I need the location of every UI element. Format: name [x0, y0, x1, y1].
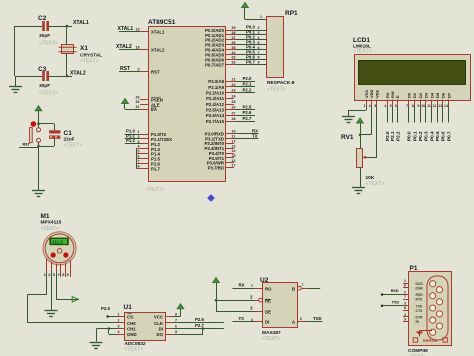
svg-text:P2.4/A12: P2.4/A12 [206, 102, 225, 107]
wire RV1 bottom to ground [360, 168, 362, 188]
svg-text:B: B [292, 286, 295, 291]
svg-text:D0: D0 [407, 92, 412, 98]
svg-text:P0.7: P0.7 [446, 131, 451, 141]
svg-text:37: 37 [232, 36, 236, 40]
svg-text:7: 7 [302, 283, 304, 287]
svg-text:P2.5: P2.5 [101, 306, 110, 311]
pin XTAL1 (19) with wire and label [118, 26, 166, 35]
svg-text:TXD: TXD [392, 301, 400, 305]
pin PSEN (29) [136, 95, 163, 102]
pin P0.6 (33) wire to RP1 pin 8 [205, 54, 266, 62]
svg-text:5: 5 [62, 273, 64, 277]
svg-text:1: 1 [138, 130, 140, 134]
svg-text:P2.7: P2.7 [243, 116, 252, 121]
pin P1.5 (6) [136, 155, 160, 162]
svg-text:XTAL2: XTAL2 [116, 44, 132, 50]
svg-text:COMPIM: COMPIM [408, 348, 428, 354]
pin P1.7 (8) [136, 164, 160, 171]
pin XTAL2 (18) with wire and label [116, 44, 165, 53]
svg-text:XTAL2: XTAL2 [151, 48, 165, 53]
pin P2.2 (23) with wire and net label [206, 87, 255, 95]
svg-text:33: 33 [232, 56, 236, 60]
svg-text:1: 1 [118, 312, 120, 316]
svg-text:XTAL1: XTAL1 [118, 26, 134, 32]
svg-text:31: 31 [136, 105, 140, 109]
svg-text:DI: DI [265, 320, 269, 325]
ground (M1 pin2) [45, 311, 58, 317]
svg-text:RV1: RV1 [341, 134, 354, 141]
svg-text:LCD1: LCD1 [353, 37, 370, 44]
svg-text:D6: D6 [441, 92, 446, 98]
svg-text:P2.0/A8: P2.0/A8 [208, 79, 224, 84]
svg-text:24: 24 [232, 94, 236, 98]
svg-text:VDD: VDD [369, 89, 374, 98]
pin P0.3 (36) wire to RP1 pin 5 [205, 40, 266, 48]
svg-text:<TEXT>: <TEXT> [39, 41, 58, 47]
wire U1 CLK net label P2.6 [174, 317, 224, 322]
wire U1 DI net label P2.7 [174, 323, 224, 329]
svg-text:P2.6: P2.6 [195, 317, 204, 322]
P1 DB9 holes [430, 281, 443, 336]
svg-text:P1.2: P1.2 [126, 138, 135, 143]
svg-text:5: 5 [138, 150, 140, 154]
svg-text:P0.6: P0.6 [441, 131, 446, 141]
pin P0.7 (32) wire to RP1 pin 9 [205, 59, 266, 67]
svg-text:TXD: TXD [313, 316, 322, 321]
svg-text:<TEXT>: <TEXT> [39, 91, 58, 97]
svg-text:MPX4115: MPX4115 [41, 220, 62, 226]
pin P2.6 (27) with wire and net label [206, 110, 255, 118]
svg-text:16: 16 [232, 159, 236, 163]
svg-text:15: 15 [232, 154, 236, 158]
svg-text:8: 8 [138, 164, 140, 168]
crystal X1 [59, 25, 103, 78]
svg-text:2: 2 [48, 273, 50, 277]
svg-text:TX: TX [239, 316, 245, 321]
svg-text:39: 39 [232, 26, 236, 30]
svg-text:2: 2 [258, 26, 260, 30]
svg-text:D3: D3 [424, 92, 429, 98]
ground (reset section) [32, 191, 45, 197]
ground (crystal section) [9, 76, 22, 93]
transceiver U2 MAX487 [260, 277, 298, 342]
potentiometer RV1 10K [341, 134, 384, 187]
power terminal (LCD VDD) + wire [357, 107, 372, 149]
svg-text:<TEXT>: <TEXT> [262, 336, 281, 342]
svg-text:DSR: DSR [416, 287, 424, 291]
svg-text:9: 9 [138, 68, 140, 72]
svg-text:AT89C51: AT89C51 [148, 19, 176, 26]
svg-text:E: E [395, 95, 400, 98]
svg-text:D4: D4 [429, 92, 434, 98]
pin P2.4 (25) [206, 100, 236, 107]
svg-text:EA: EA [151, 107, 158, 112]
ground (U1) [90, 343, 103, 349]
pin P2.1 (22) with wire and net label [208, 82, 255, 90]
svg-text:P2.5: P2.5 [243, 104, 252, 109]
svg-text:TX: TX [252, 133, 258, 138]
svg-text:RI: RI [416, 320, 419, 324]
svg-text:P2.1/A9: P2.1/A9 [208, 85, 224, 90]
svg-text:P0.3: P0.3 [424, 131, 429, 141]
svg-text:D2: D2 [418, 92, 423, 98]
svg-text:36: 36 [232, 41, 236, 45]
P1 pin stubs, numbers and names [403, 279, 423, 324]
svg-text:P0.7: P0.7 [246, 59, 255, 64]
svg-text:P0.7/AD7: P0.7/AD7 [205, 62, 224, 67]
svg-text:2: 2 [138, 135, 140, 139]
resistor pack RP1 [267, 10, 299, 93]
svg-text:10: 10 [421, 104, 425, 108]
capacitor C2 [38, 15, 58, 47]
svg-text:GND: GND [127, 332, 137, 337]
svg-text:P2.3/A11: P2.3/A11 [206, 96, 224, 101]
svg-text:4: 4 [384, 104, 386, 108]
svg-text:DI: DI [159, 327, 163, 332]
connector P1 COMPIM [408, 265, 452, 356]
svg-text:P2.6: P2.6 [243, 110, 252, 115]
svg-text:30: 30 [136, 100, 140, 104]
svg-text:DO: DO [156, 332, 163, 337]
svg-text:P0.4: P0.4 [429, 131, 434, 141]
svg-text:5: 5 [175, 330, 177, 334]
pin P0.5 (34) wire to RP1 pin 7 [205, 49, 266, 57]
svg-text:34: 34 [232, 51, 236, 55]
svg-text:32: 32 [232, 61, 236, 65]
origin marker (blue diamond) [206, 193, 215, 202]
svg-text:<TEXT>: <TEXT> [64, 143, 83, 149]
wire M1 pin2 to ground [51, 271, 53, 311]
svg-text:CH0: CH0 [127, 321, 136, 326]
pin P2.5 (26) with wire and net label [206, 104, 255, 112]
pin ALE (30) [136, 100, 160, 107]
svg-text:P2.5/A13: P2.5/A13 [206, 108, 225, 113]
svg-text:4: 4 [251, 318, 253, 322]
svg-text:X1: X1 [80, 45, 88, 52]
svg-text:8: 8 [404, 306, 406, 310]
wire joining pins P1.3-P1.7 [136, 149, 138, 169]
svg-text:9: 9 [417, 104, 419, 108]
pin P3.0 (10) wire RX [205, 128, 259, 136]
wire XTAL1 net (left section top) [15, 26, 72, 28]
ground (LCD VSS) [342, 117, 355, 123]
LCD pin names and numbers [363, 89, 451, 108]
svg-text:1: 1 [251, 284, 253, 288]
svg-text:17: 17 [232, 164, 236, 168]
U2 pin names [265, 286, 296, 324]
svg-text:2: 2 [369, 104, 371, 108]
svg-text:U1: U1 [124, 304, 133, 311]
U2 DE pin (3) [250, 306, 262, 312]
svg-text:3: 3 [118, 324, 120, 328]
wires LCD RS/RW/E with net labels P2.0-P2.2 [385, 107, 400, 142]
node XTAL1 label [73, 20, 89, 26]
svg-text:P2.6/A14: P2.6/A14 [206, 113, 225, 118]
pin P3.2 (12) [204, 139, 235, 146]
svg-text:26: 26 [232, 106, 236, 110]
svg-text:TXD: TXD [416, 304, 423, 308]
svg-text:12: 12 [432, 104, 436, 108]
pin P3.7 (17) [208, 164, 236, 171]
power terminal (reset section) [35, 106, 42, 113]
svg-text:VEE: VEE [375, 90, 380, 98]
wire TXD to P1 [381, 301, 403, 307]
svg-text:12: 12 [232, 139, 236, 143]
svg-text:<TEXT>: <TEXT> [41, 226, 60, 232]
svg-text:D1: D1 [412, 92, 417, 98]
U2 A pin (6) wire TXD [298, 316, 323, 322]
svg-text:29: 29 [136, 95, 140, 99]
svg-text:25: 25 [232, 100, 236, 104]
svg-text:<TEXT>: <TEXT> [366, 181, 385, 187]
svg-text:RXD: RXD [391, 289, 399, 293]
capacitor C1 [37, 122, 82, 148]
wire U1 DO join DI [174, 327, 205, 334]
pin P3.1 (11) wire TX [205, 133, 258, 141]
wire RX to U2 RO (1) [232, 283, 262, 289]
svg-text:3: 3 [138, 140, 140, 144]
pin P2.3 (24) [206, 94, 235, 101]
P1 error indicator glyph [416, 331, 433, 337]
svg-text:6: 6 [138, 155, 140, 159]
svg-text:<TEXT>: <TEXT> [353, 49, 372, 55]
svg-text:10: 10 [232, 130, 236, 134]
pin P0.4 (35) wire to RP1 pin 6 [205, 45, 266, 53]
svg-text:8: 8 [175, 312, 177, 316]
pin P0.1 (38) wire to RP1 pin 3 [205, 30, 266, 38]
svg-text:38: 38 [232, 31, 236, 35]
svg-text:13: 13 [232, 144, 236, 148]
svg-text:<TEXT>: <TEXT> [80, 59, 99, 65]
svg-text:5: 5 [390, 104, 392, 108]
pin P0.2 (37) wire to RP1 pin 4 [205, 35, 266, 43]
svg-text:30pF: 30pF [39, 33, 50, 39]
svg-text:21: 21 [232, 77, 236, 81]
svg-text:3: 3 [374, 104, 376, 108]
svg-text:8: 8 [412, 104, 414, 108]
M1 pins and numbers [44, 258, 71, 277]
svg-text:P1.7: P1.7 [151, 166, 161, 171]
svg-text:35: 35 [232, 46, 236, 50]
pin P1.0 (1) with wire and label [125, 128, 167, 137]
pin P2.7 (28) with wire and net label [206, 116, 255, 124]
svg-text:XTAL1: XTAL1 [73, 20, 89, 26]
svg-text:11: 11 [232, 135, 236, 139]
wire TX to U2 DI (4) [232, 316, 262, 322]
svg-text:<TEXT>: <TEXT> [267, 87, 286, 93]
pin P3.3 (13) [204, 144, 235, 151]
svg-text:CS: CS [127, 315, 133, 320]
pin P1.6 (7) [136, 159, 160, 166]
output terminal arrow (M1 pin3) [72, 297, 78, 302]
svg-text:3: 3 [258, 31, 260, 35]
svg-text:<TEXT>: <TEXT> [125, 347, 144, 353]
svg-text:D7: D7 [446, 92, 451, 98]
wire left vertical (C2/C3 common) [14, 26, 16, 76]
U1 right pin stubs and numbers [166, 312, 178, 334]
svg-text:7: 7 [404, 295, 406, 299]
svg-text:RST: RST [151, 70, 160, 75]
svg-text:D5: D5 [435, 92, 440, 98]
svg-text:4: 4 [258, 36, 260, 40]
svg-text:P2.2: P2.2 [395, 131, 400, 141]
svg-text:2: 2 [118, 319, 120, 323]
svg-text:P0.0: P0.0 [407, 131, 412, 141]
svg-text:13: 13 [438, 104, 442, 108]
wire U1 CH1+GND to ground [97, 327, 117, 341]
svg-text:14: 14 [232, 149, 236, 153]
svg-text:1: 1 [44, 273, 46, 277]
svg-text:DCD: DCD [416, 282, 424, 286]
svg-text:P0.5: P0.5 [435, 131, 440, 141]
svg-text:RTS: RTS [416, 298, 424, 302]
svg-text:P2.1: P2.1 [243, 82, 252, 87]
svg-text:C2: C2 [38, 15, 47, 22]
svg-text:RST: RST [23, 143, 31, 147]
wire M1 pin3 to output arrow [56, 271, 78, 300]
svg-text:VSS: VSS [364, 90, 369, 98]
svg-text:5: 5 [258, 41, 260, 45]
svg-text:23: 23 [232, 89, 236, 93]
push button RST1 [23, 113, 41, 147]
U1 pin names [127, 313, 164, 337]
svg-text:4: 4 [138, 145, 140, 149]
svg-text:+: + [58, 273, 60, 277]
svg-text:XTAL1: XTAL1 [151, 30, 165, 35]
wire U1 CS with net label P2.5 [101, 306, 117, 318]
svg-text:P0.2: P0.2 [418, 131, 423, 141]
ADC U1 ADC0832 [124, 304, 166, 353]
svg-text:27: 27 [232, 111, 236, 115]
svg-text:CLK: CLK [154, 321, 164, 326]
node XTAL2 label [70, 71, 86, 77]
svg-text:6: 6 [300, 317, 302, 321]
pin P0.0 (39) wire to RP1 pin 2 [205, 25, 266, 33]
power terminal (U1 VCC) [174, 304, 184, 317]
svg-text:P2.0: P2.0 [243, 76, 252, 81]
svg-text:P0.1: P0.1 [412, 131, 417, 141]
svg-text:1: 1 [404, 279, 406, 283]
svg-text:P2.2: P2.2 [243, 87, 252, 92]
ground (RV1) [352, 188, 365, 194]
svg-text:M1: M1 [41, 213, 50, 220]
power terminal RP1 pin 1 [242, 3, 266, 20]
svg-text:P3.7/RD: P3.7/RD [208, 165, 224, 170]
svg-text:7: 7 [138, 159, 140, 163]
svg-text:7: 7 [258, 51, 260, 55]
svg-text:RP1: RP1 [285, 10, 298, 17]
svg-text:7: 7 [175, 319, 177, 323]
pin P3.4 (14) [209, 149, 236, 156]
pin P3.5 (15) [209, 154, 236, 161]
svg-text:6: 6 [395, 104, 397, 108]
wire RE/DE tie to power terminal [213, 278, 254, 312]
svg-text:2: 2 [404, 290, 406, 294]
svg-text:30pF: 30pF [39, 83, 50, 89]
svg-text:19: 19 [136, 28, 140, 32]
wire XTAL2 net (left section bottom) [15, 76, 72, 78]
svg-text:7: 7 [406, 104, 408, 108]
svg-text:RST: RST [120, 66, 131, 72]
svg-text:111.2: 111.2 [52, 239, 63, 244]
svg-text:4: 4 [118, 330, 120, 334]
svg-text:P2.2/A10: P2.2/A10 [206, 90, 225, 95]
svg-text:XTAL2: XTAL2 [70, 71, 86, 77]
svg-text:RX: RX [239, 283, 245, 288]
pin P1.4 (5) [136, 150, 160, 157]
svg-text:CTS: CTS [416, 309, 424, 313]
wire RXD to P1 [381, 289, 403, 295]
svg-text:C1: C1 [64, 130, 73, 137]
U2 RE pin (2) inverted [250, 295, 262, 302]
svg-text:C3: C3 [38, 66, 47, 73]
pin EA (31) with power terminal [122, 99, 158, 113]
svg-text:4: 4 [404, 313, 406, 317]
svg-text:9: 9 [404, 317, 406, 321]
svg-text:3: 3 [404, 302, 406, 306]
svg-text:1: 1 [260, 15, 262, 19]
svg-text:RXD: RXD [416, 293, 424, 297]
LCD LCD1 LM016L [353, 37, 471, 101]
svg-text:3: 3 [53, 273, 55, 277]
pin P1.2 (3) with wire and label [125, 138, 161, 147]
pin P2.0 (21) with wire and net label [208, 76, 255, 84]
svg-text:P2.7/A15: P2.7/A15 [206, 119, 225, 124]
svg-text:14: 14 [444, 104, 448, 108]
svg-text:<TEXT>: <TEXT> [146, 187, 165, 193]
svg-text:6: 6 [258, 46, 260, 50]
svg-text:CH1: CH1 [127, 327, 136, 332]
wire button to ground [38, 142, 40, 190]
pressure sensor M1 MPX4115 [41, 213, 77, 265]
pin RST (9) with wire and label [119, 66, 160, 75]
svg-text:28: 28 [232, 117, 236, 121]
capacitor C3 [38, 66, 58, 97]
svg-text:8: 8 [258, 56, 260, 60]
wires LCD D0-D7 with net labels P0.0-P0.7 [407, 107, 452, 142]
microcontroller AT89C51 body [146, 19, 226, 193]
svg-text:22: 22 [232, 83, 236, 87]
pin P1.1 (2) with wire and label [125, 133, 172, 142]
svg-text:18: 18 [136, 46, 140, 50]
svg-text:P1: P1 [410, 265, 418, 272]
svg-text:11: 11 [427, 104, 431, 108]
svg-text:RO: RO [265, 286, 272, 291]
U2 B pin (7) wire [298, 283, 321, 290]
svg-text:6: 6 [67, 273, 69, 277]
P1 ERROR text and squares [413, 338, 447, 343]
svg-text:6: 6 [175, 324, 177, 328]
svg-text:DE: DE [265, 309, 271, 314]
wire LCD VSS to ground [349, 107, 367, 117]
wire RST net stub [19, 147, 39, 149]
svg-text:RESPACK-8: RESPACK-8 [267, 80, 295, 86]
svg-text:1: 1 [363, 104, 365, 108]
svg-text:VCC: VCC [154, 315, 164, 320]
svg-text:DTR: DTR [416, 316, 424, 320]
wire LCD VEE to RV1 wiper [364, 107, 377, 158]
U1 left pin stubs and numbers [117, 312, 125, 334]
wire M1 pin1 to U1 CH0 [28, 271, 117, 323]
svg-text:ERROR: ERROR [423, 338, 438, 343]
svg-text:6: 6 [404, 284, 406, 288]
pin P1.3 (4) [136, 145, 160, 152]
svg-text:9: 9 [258, 61, 260, 65]
pin P3.6 (16) [207, 159, 236, 166]
